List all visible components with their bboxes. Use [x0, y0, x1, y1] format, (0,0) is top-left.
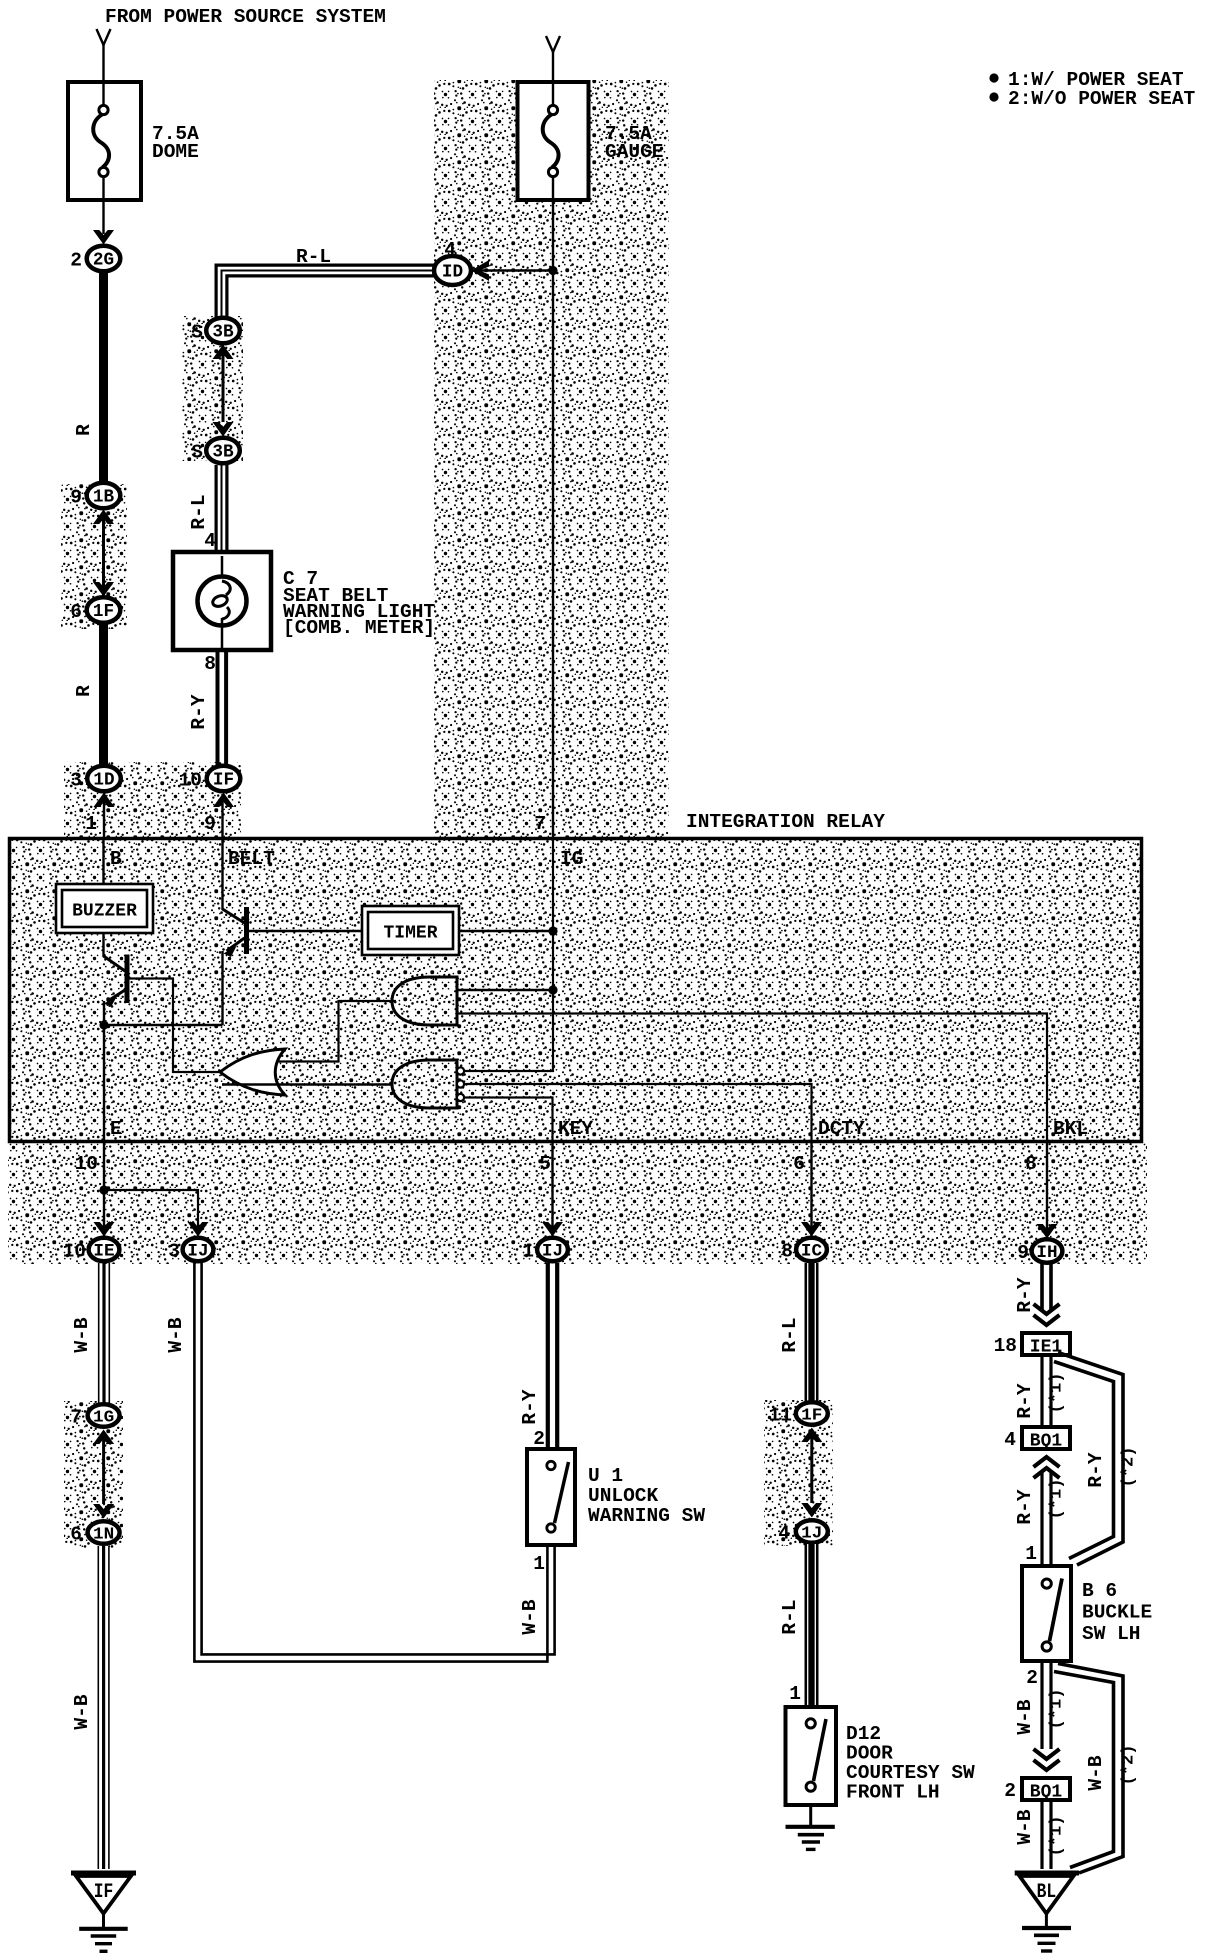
wire B inside relay: [102, 840, 104, 886]
wire R (thick) 2G to 1B: [99, 272, 108, 482]
option chevrons down to IE1: [1034, 1304, 1060, 1314]
svg-text:IJ: IJ: [187, 1242, 208, 1262]
svg-text:IC: IC: [801, 1242, 823, 1262]
svg-text:1N: 1N: [93, 1526, 114, 1545]
option chevrons down to BQ1: [1034, 1749, 1060, 1759]
svg-text:IF: IF: [94, 1881, 114, 1904]
svg-text:R-L: R-L: [188, 494, 210, 529]
wire R-Y: IJ to unlock warning switch pin 2: [546, 1263, 550, 1449]
svg-text:TIMER: TIMER: [383, 924, 437, 944]
wire timer output to IG line: [459, 930, 553, 932]
svg-text:W-B: W-B: [519, 1599, 541, 1634]
power feed arrow (gauge circuit): [546, 36, 560, 52]
svg-text:4: 4: [204, 530, 216, 552]
svg-text:R: R: [73, 685, 95, 697]
svg-text:3: 3: [70, 770, 82, 792]
wire from power source to fuse GAUGE: [552, 50, 554, 110]
svg-text:S: S: [191, 322, 203, 344]
shaded region around junction 3B-3B: [182, 316, 243, 461]
node: timer/IG junction: [548, 926, 557, 935]
svg-text:B: B: [110, 848, 122, 870]
wire OR output to Q1 base: [130, 979, 223, 1073]
svg-text:UNLOCK: UNLOCK: [588, 1485, 659, 1507]
wire from power source to fuse DOME: [102, 43, 104, 110]
svg-text:DCTY: DCTY: [818, 1118, 865, 1140]
wire R-Y (*1): IE1 to BQ1: [1040, 1356, 1043, 1427]
wire R-Y: C7 pin 8 to connector IF: [216, 650, 220, 765]
svg-text:(*2): (*2): [1120, 1447, 1139, 1488]
svg-text:1F: 1F: [801, 1407, 822, 1426]
connector 1J (pin 4): [796, 1520, 828, 1542]
integration relay box: [10, 839, 1142, 1142]
door courtesy switch D12: [786, 1707, 837, 1805]
wire W-B: BQ1 to ground BL: [1040, 1800, 1043, 1869]
junction arrows 3B to 3B: [213, 345, 234, 360]
svg-text:3: 3: [168, 1241, 180, 1263]
connector 1F (pin 11): [796, 1402, 828, 1424]
svg-text:W-B: W-B: [1014, 1699, 1036, 1734]
svg-text:IF: IF: [213, 770, 234, 791]
wire IG vertical inside relay, bends into AND2 input: [464, 840, 553, 1071]
svg-text:18: 18: [994, 1335, 1017, 1357]
svg-text:B 6: B 6: [1082, 1580, 1117, 1602]
connector IC (pin 8): [796, 1238, 827, 1262]
connector IE (pin 10): [89, 1238, 120, 1262]
svg-text:W-B: W-B: [1085, 1755, 1107, 1790]
svg-text:1: 1: [789, 1683, 801, 1705]
svg-text:IE1: IE1: [1030, 1338, 1063, 1358]
option chevrons up from BQ1: [1034, 1457, 1060, 1467]
timer box: [362, 906, 459, 955]
svg-text:W-B: W-B: [71, 1317, 93, 1352]
wire emitter bus to Q2: [104, 1024, 223, 1026]
svg-text:1D: 1D: [93, 770, 114, 791]
svg-text:10: 10: [179, 770, 202, 792]
svg-text:1J: 1J: [801, 1525, 822, 1544]
svg-text:[COMB. METER]: [COMB. METER]: [283, 617, 435, 639]
junction arrows 1F to 1J: [801, 1428, 822, 1443]
svg-text:9: 9: [1017, 1242, 1029, 1264]
unlock warning switch U1: [527, 1449, 575, 1545]
wire W-B: IE to 1G: [98, 1263, 100, 1403]
legend note 2: [989, 92, 998, 101]
shaded band below integration relay: [8, 1141, 1147, 1264]
wire Q2 base to timer: [249, 930, 362, 932]
junction arrows 1B to 1F: [93, 510, 114, 525]
wire junction to connector ID: [478, 269, 553, 271]
wire 1D to relay pin 1: [103, 794, 105, 838]
ground below D12: [809, 1805, 812, 1826]
svg-text:BQ1: BQ1: [1030, 1783, 1063, 1803]
svg-text:FROM POWER SOURCE SYSTEM: FROM POWER SOURCE SYSTEM: [105, 6, 386, 28]
svg-text:2G: 2G: [93, 250, 114, 271]
connector IF (pin 10): [207, 766, 241, 792]
connector 3B lower (pin S): [206, 438, 240, 464]
svg-text:R: R: [73, 424, 95, 436]
svg-text:R-Y: R-Y: [1085, 1452, 1107, 1487]
wire R-Y (*1): BQ1 to buckle switch: [1040, 1472, 1043, 1566]
wire fuse DOME to connector 2G: [102, 176, 104, 234]
svg-text:3B: 3B: [212, 442, 233, 463]
connector 3B upper (pin S): [206, 318, 240, 344]
svg-text:2: 2: [70, 250, 82, 272]
connector IE1 (pin 18): [1022, 1333, 1070, 1355]
OR gate (mirrored, output left): [220, 1049, 285, 1095]
connector 1B (pin 9): [87, 483, 121, 509]
svg-text:3B: 3B: [212, 322, 233, 343]
svg-text:1B: 1B: [93, 487, 114, 508]
wire W-B (*1): B6 to chevrons: [1040, 1661, 1043, 1749]
svg-text:R-Y: R-Y: [519, 1389, 541, 1424]
svg-text:W-B: W-B: [1014, 1809, 1036, 1844]
svg-text:(*1): (*1): [1048, 1479, 1067, 1520]
shaded harness region (gauge column band): [434, 80, 669, 837]
wire AND2 input b to DCTY pin 6: [464, 1084, 812, 1141]
svg-text:R-L: R-L: [296, 246, 331, 268]
wire R-L: 3B to seat belt warning light pin 4 (triple line): [215, 465, 218, 553]
seat belt warning light C7 (bulb in comb. meter): [173, 552, 271, 650]
wire AND1 input b to BKL pin 8: [457, 1014, 1047, 1142]
wire IG: fuse GAUGE down to relay pin 7: [552, 176, 554, 838]
power feed arrow (dome circuit): [97, 29, 111, 45]
ground BL: [1015, 1871, 1079, 1876]
wire W-B: 1N to ground IF: [97, 1546, 99, 1869]
AND gate A2 (mirrored with inverted inputs): [392, 1060, 457, 1108]
svg-text:SW LH: SW LH: [1082, 1623, 1141, 1645]
svg-text:U 1: U 1: [588, 1465, 623, 1487]
connector BQ1 (pin 4): [1022, 1427, 1070, 1449]
wire buzzer to transistor Q1: [102, 933, 104, 957]
svg-text:8: 8: [1025, 1153, 1037, 1175]
shaded region around connectors 1D and IF: [64, 762, 241, 837]
svg-text:6: 6: [70, 1524, 82, 1546]
svg-text:R-Y: R-Y: [1014, 1277, 1036, 1312]
svg-text:R-Y: R-Y: [1014, 1489, 1036, 1524]
svg-text:1: 1: [522, 1241, 534, 1263]
svg-text:(*2): (*2): [1120, 1745, 1139, 1786]
connector 1N (pin 6): [88, 1521, 120, 1543]
svg-text:11: 11: [769, 1405, 792, 1427]
svg-text:BELT: BELT: [228, 848, 275, 870]
svg-text:8: 8: [204, 653, 216, 675]
svg-text:10: 10: [63, 1241, 86, 1263]
wire R-Y (*2) bypass loop upper: [1058, 1353, 1123, 1566]
shaded region around junction 1G-1N: [64, 1401, 123, 1548]
node: junction on gauge wire feeding ID: [548, 266, 557, 275]
connector 1F (pin 6): [87, 597, 121, 623]
svg-text:4: 4: [1004, 1429, 1016, 1451]
shaded region around junction 1F-1J (door courtesy branch): [764, 1400, 833, 1546]
wire Q2 emitter down to emitter bus: [221, 951, 223, 1025]
wire BELT inside relay: [221, 840, 223, 910]
svg-text:BUZZER: BUZZER: [72, 902, 137, 922]
svg-text:INTEGRATION RELAY: INTEGRATION RELAY: [686, 811, 885, 833]
wire R-L: IC to 1F (thick): [805, 1263, 819, 1403]
wire R (thick) 1F to 1D: [99, 624, 108, 765]
svg-text:R-Y: R-Y: [188, 694, 210, 729]
junction arrow below IF: [213, 793, 234, 808]
svg-text:1: 1: [1025, 1543, 1037, 1565]
fuse 7.5A DOME: [68, 82, 141, 200]
node: AND1/IG junction: [548, 985, 557, 994]
svg-text:IH: IH: [1036, 1243, 1057, 1263]
svg-text:4: 4: [778, 1523, 790, 1545]
wire W-B: IJ loop to unlock warning switch pin 1: [194, 1263, 547, 1662]
wire R-L: ID to junction 3B (triple line): [216, 265, 434, 317]
svg-text:1: 1: [85, 813, 97, 835]
buckle switch B6: [1022, 1566, 1071, 1661]
svg-text:ID: ID: [442, 262, 463, 283]
wire R-Y: IH down: [1040, 1264, 1044, 1311]
svg-text:BL: BL: [1037, 1881, 1057, 1904]
svg-text:2: 2: [533, 1428, 545, 1450]
svg-text:W-B: W-B: [71, 1694, 93, 1729]
buzzer box: [56, 884, 153, 933]
svg-text:FRONT LH: FRONT LH: [846, 1782, 940, 1804]
svg-text:R-L: R-L: [779, 1599, 801, 1634]
svg-text:2:W/O POWER SEAT: 2:W/O POWER SEAT: [1008, 88, 1196, 110]
connector IH (pin 9): [1032, 1239, 1063, 1263]
connector IJ (pin 1): [537, 1238, 568, 1262]
svg-text:2: 2: [1004, 1780, 1016, 1802]
connector 2G (pin 2): [87, 246, 121, 272]
shaded region around junction 1B-1F: [61, 484, 127, 629]
AND gate A1 (mirrored, output left): [392, 977, 457, 1025]
svg-text:BQ1: BQ1: [1030, 1432, 1063, 1452]
node: emitter junction: [99, 1020, 108, 1029]
wire AND1 input a to IG: [457, 989, 553, 991]
svg-text:(*1): (*1): [1048, 1373, 1067, 1414]
transistor Q2 (belt input): [244, 907, 249, 954]
junction arrows 1G to 1N: [93, 1430, 114, 1445]
svg-text:5: 5: [539, 1153, 551, 1175]
svg-text:8: 8: [781, 1241, 793, 1263]
wire E below relay with branch: [103, 1141, 105, 1237]
svg-text:BKL: BKL: [1053, 1118, 1088, 1140]
wire R-L: 1J to door courtesy switch (thick): [805, 1544, 819, 1706]
svg-text:DOME: DOME: [152, 141, 199, 163]
svg-text:10: 10: [75, 1153, 98, 1175]
transistor Q1 (buzzer driver): [125, 955, 130, 1004]
wire W-B (*2) bypass loop lower: [1058, 1664, 1123, 1874]
svg-text:6: 6: [793, 1153, 805, 1175]
svg-text:W-B: W-B: [165, 1317, 187, 1352]
connector 1D (pin 3): [87, 766, 121, 792]
svg-text:GAUGE: GAUGE: [605, 141, 664, 163]
svg-text:E: E: [110, 1118, 122, 1140]
svg-text:BUCKLE: BUCKLE: [1082, 1602, 1152, 1624]
svg-text:6: 6: [70, 601, 82, 623]
wire IF to relay pin 9: [221, 794, 223, 838]
svg-text:IG: IG: [560, 848, 583, 870]
junction arrow below 1D: [94, 793, 115, 808]
svg-text:9: 9: [70, 487, 82, 509]
svg-text:(*1): (*1): [1048, 1816, 1067, 1857]
wire AND1 output to OR input a: [277, 1001, 396, 1062]
connector IJ (pin 3): [183, 1238, 214, 1262]
wire AND2 input c to KEY pin 5: [464, 1098, 553, 1142]
wire E: Q1 emitter down to relay pin 10: [103, 1001, 105, 1141]
svg-text:2: 2: [1026, 1667, 1038, 1689]
svg-text:1F: 1F: [93, 601, 114, 622]
svg-text:S: S: [191, 442, 203, 464]
ground IF: [71, 1871, 136, 1876]
svg-text:9: 9: [204, 813, 216, 835]
wire AND2 output to OR input b: [222, 1083, 392, 1085]
fuse 7.5A GAUGE: [518, 82, 589, 200]
svg-text:1: 1: [533, 1553, 545, 1575]
svg-text:IJ: IJ: [542, 1242, 563, 1262]
svg-text:R-L: R-L: [779, 1317, 801, 1352]
svg-text:1G: 1G: [93, 1409, 114, 1428]
svg-text:IE: IE: [93, 1242, 114, 1262]
svg-text:7: 7: [70, 1407, 82, 1429]
svg-text:7: 7: [534, 813, 546, 835]
svg-text:WARNING SW: WARNING SW: [588, 1505, 705, 1527]
connector 1G (pin 7): [88, 1404, 120, 1426]
svg-text:KEY: KEY: [558, 1118, 593, 1140]
svg-text:(*1): (*1): [1048, 1689, 1067, 1730]
connector BQ1 (pin 2): [1022, 1778, 1070, 1800]
svg-text:R-Y: R-Y: [1014, 1383, 1036, 1418]
legend note 1: [989, 73, 998, 82]
